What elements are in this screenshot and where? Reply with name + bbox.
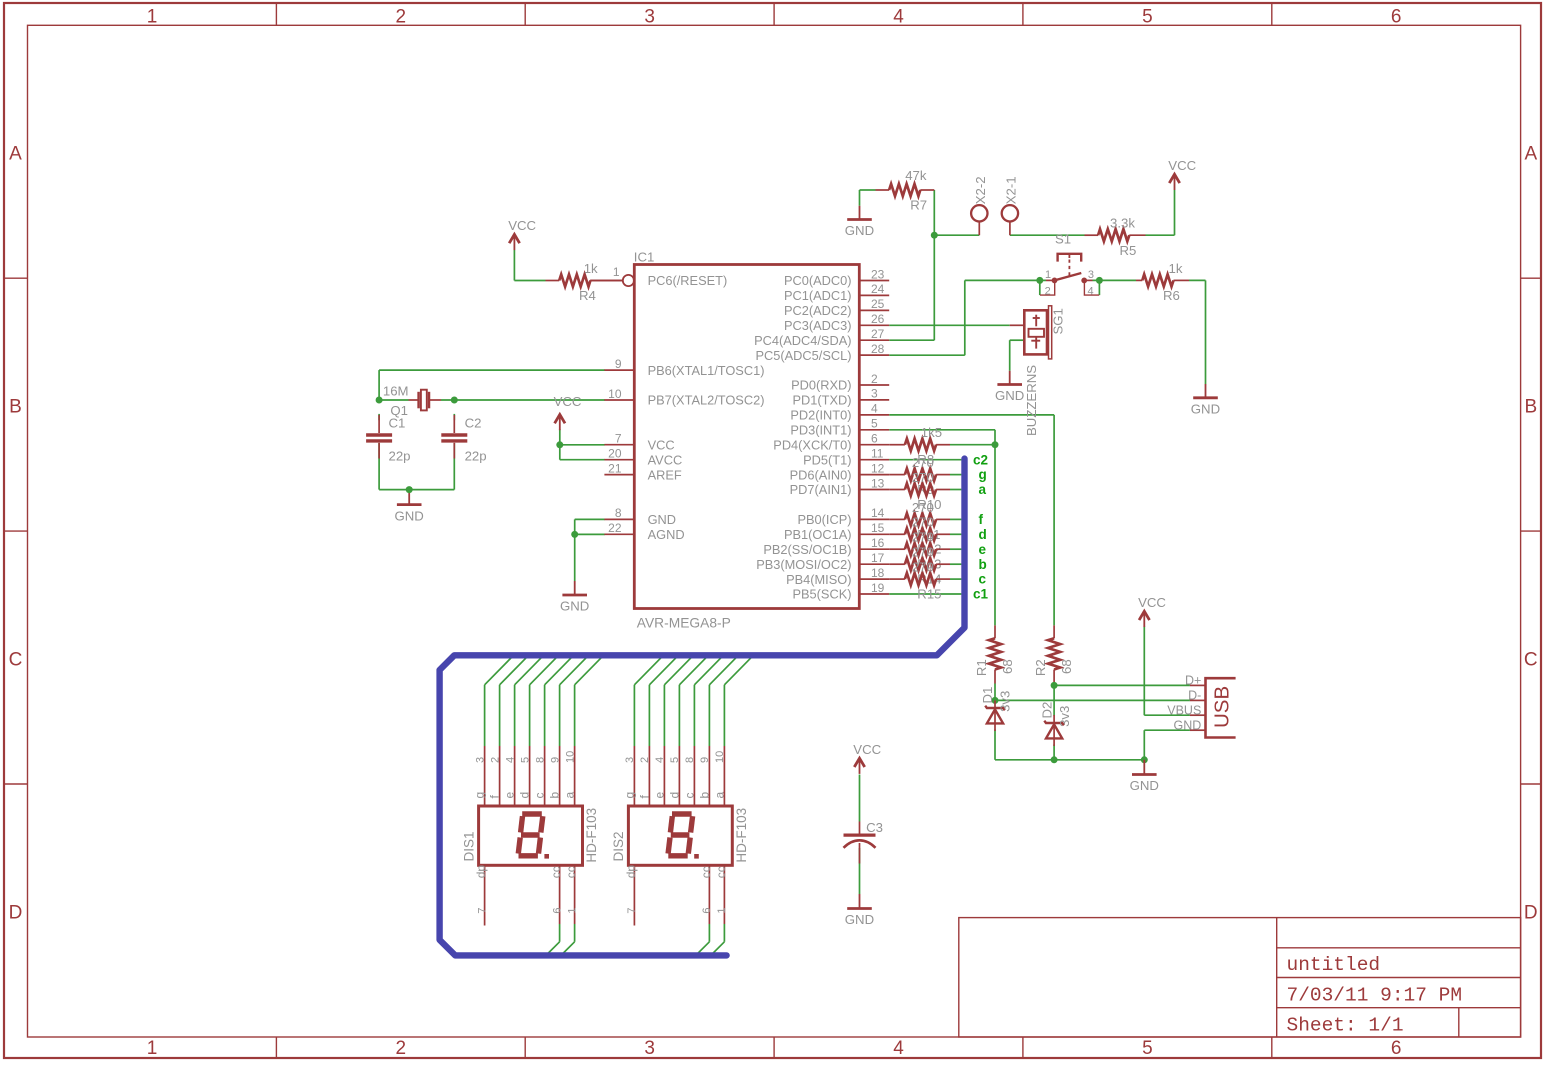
svg-text:5: 5: [669, 757, 681, 763]
svg-text:3v3: 3v3: [1057, 706, 1072, 727]
svg-text:13: 13: [871, 476, 885, 490]
svg-text:27: 27: [871, 327, 885, 341]
svg-text:S1: S1: [1055, 232, 1071, 247]
diode D2 zener 3v3: [1039, 702, 1072, 746]
resistor R12 270: [889, 515, 950, 557]
svg-text:b: b: [979, 557, 987, 572]
wire pin28 to S1 pin1: [889, 280, 1046, 355]
power VCC (R5): [1168, 158, 1196, 190]
svg-text:A: A: [1524, 144, 1537, 165]
svg-text:C2: C2: [465, 415, 482, 430]
bus segment display: [440, 459, 965, 956]
diode D1 zener 3v3: [980, 687, 1013, 731]
svg-text:16: 16: [871, 536, 885, 550]
svg-text:3v3: 3v3: [998, 691, 1013, 712]
svg-text:6: 6: [1391, 1038, 1402, 1059]
svg-text:4: 4: [504, 757, 516, 763]
svg-text:22p: 22p: [465, 448, 487, 463]
svg-text:7/03/11 9:17 PM: 7/03/11 9:17 PM: [1287, 985, 1463, 1007]
svg-text:VBUS: VBUS: [1167, 703, 1201, 717]
svg-text:8: 8: [615, 506, 622, 520]
svg-text:1: 1: [147, 1038, 158, 1059]
svg-text:2: 2: [639, 757, 651, 763]
node junction crystal left: [376, 397, 383, 404]
wire display segment pin: [664, 655, 693, 746]
wire resistor output pin18 to bus: [950, 578, 961, 580]
svg-text:47k: 47k: [905, 168, 927, 183]
pin 11 PD5(T1): [803, 447, 889, 468]
pin 18 PB4(MISO): [786, 566, 889, 587]
wire display segment pin: [709, 655, 738, 746]
svg-text:3: 3: [474, 757, 486, 763]
svg-text:a: a: [563, 792, 577, 799]
svg-text:2: 2: [396, 6, 407, 27]
svg-text:10: 10: [714, 751, 726, 763]
wire display segment pin: [634, 655, 663, 746]
resistor R1 68: [974, 625, 1015, 683]
wire pin11 to bus label c2: [889, 459, 961, 461]
svg-text:PB5(SCK): PB5(SCK): [792, 587, 851, 602]
svg-text:2: 2: [1045, 285, 1051, 297]
power VCC (pin7): [554, 394, 582, 430]
svg-text:PB1(OC1A): PB1(OC1A): [784, 527, 852, 542]
svg-text:3: 3: [644, 1038, 655, 1059]
svg-text:GND: GND: [845, 223, 874, 238]
svg-text:R5: R5: [1120, 243, 1137, 258]
svg-text:4: 4: [893, 1038, 904, 1059]
svg-text:PC2(ADC2): PC2(ADC2): [784, 303, 852, 318]
pin 7 VCC: [604, 432, 674, 453]
switch S1: [1040, 232, 1099, 298]
svg-text:c: c: [979, 572, 987, 587]
svg-text:VCC: VCC: [648, 437, 675, 452]
svg-text:b: b: [548, 792, 562, 799]
svg-text:4: 4: [1088, 285, 1094, 297]
wire display cc pin to bus: [546, 924, 560, 955]
svg-text:7: 7: [626, 907, 638, 913]
svg-text:D1: D1: [980, 687, 995, 704]
svg-text:270: 270: [912, 545, 934, 560]
pin 26 PC3(ADC3): [784, 312, 889, 333]
svg-text:PD3(INT1): PD3(INT1): [790, 423, 851, 438]
svg-text:22p: 22p: [389, 448, 411, 463]
svg-text:14: 14: [871, 506, 885, 520]
svg-text:C1: C1: [389, 415, 406, 430]
wire resistor output pin17 to bus: [950, 563, 961, 565]
svg-text:c: c: [533, 793, 547, 799]
svg-text:IC1: IC1: [634, 249, 655, 264]
svg-text:Sheet: 1/1: Sheet: 1/1: [1287, 1015, 1404, 1037]
svg-text:untitled: untitled: [1287, 954, 1381, 976]
svg-text:23: 23: [871, 267, 885, 281]
ground (SG1): [995, 371, 1024, 403]
svg-text:VCC: VCC: [1138, 595, 1166, 610]
svg-text:g: g: [979, 467, 987, 482]
capacitor C1 22p: [366, 415, 410, 463]
svg-text:2: 2: [489, 757, 501, 763]
wire display segment pin: [500, 655, 529, 746]
resistor R10 270: [889, 470, 950, 512]
pin 6 PD4(XCK/T0): [773, 432, 889, 453]
pin 28 PC5(ADC5/SCL): [755, 342, 889, 363]
wire resistor output pin16 to bus: [950, 548, 961, 550]
svg-text:GND: GND: [845, 912, 874, 927]
wire resistor output pin15 to bus: [950, 533, 961, 535]
svg-text:cc: cc: [549, 866, 563, 878]
wire display segment pin: [649, 655, 678, 746]
node junction S1 pin3: [1096, 277, 1103, 284]
pin 24 PC1(ADC1): [784, 282, 889, 303]
svg-text:PC5(ADC5/SCL): PC5(ADC5/SCL): [755, 348, 851, 363]
pin 22 AGND: [604, 521, 684, 542]
capacitor C3 polarized: [844, 820, 883, 864]
svg-text:DIS1: DIS1: [461, 831, 476, 861]
ground (pin8/22): [560, 581, 589, 614]
svg-text:2: 2: [396, 1038, 407, 1059]
wire S1 pin3 to R6: [1093, 280, 1137, 295]
wire VCC to pin7/pin20: [560, 429, 605, 460]
svg-text:cc: cc: [714, 866, 728, 878]
pin 25 PC2(ADC2): [784, 297, 889, 318]
svg-text:PC4(ADC4/SDA): PC4(ADC4/SDA): [754, 333, 851, 348]
resistor R14 270: [889, 545, 950, 587]
svg-text:1: 1: [716, 907, 728, 913]
resistor R13 270: [889, 530, 950, 572]
resistor R9 270: [889, 455, 950, 497]
svg-text:dp: dp: [624, 865, 638, 879]
svg-text:1: 1: [147, 6, 158, 27]
pin 20 AVCC: [604, 447, 682, 468]
wire display cc pin to bus: [711, 924, 725, 955]
svg-text:PB7(XTAL2/TOSC2): PB7(XTAL2/TOSC2): [648, 393, 765, 408]
svg-text:PD5(T1): PD5(T1): [803, 452, 851, 467]
svg-text:68: 68: [1059, 659, 1074, 674]
svg-text:1k: 1k: [1169, 261, 1183, 276]
svg-text:270: 270: [912, 470, 934, 485]
svg-text:A: A: [9, 144, 22, 165]
pin 15 PB1(OC1A): [784, 521, 889, 542]
svg-text:PC1(ADC1): PC1(ADC1): [784, 288, 852, 303]
svg-text:3.3k: 3.3k: [1110, 216, 1135, 231]
node junction S1 pin1: [1036, 277, 1043, 284]
op-amp ic IC1 AVR-MEGA8-P: [634, 249, 860, 630]
wire D+ net: [1054, 684, 1190, 716]
ground (USB): [1130, 760, 1159, 793]
svg-text:D-: D-: [1188, 689, 1201, 703]
svg-text:5: 5: [519, 757, 531, 763]
pin 23 PC0(ADC0): [784, 267, 889, 288]
svg-text:PB0(ICP): PB0(ICP): [797, 512, 851, 527]
svg-text:7: 7: [615, 432, 622, 446]
svg-text:AGND: AGND: [648, 527, 685, 542]
svg-text:GND: GND: [995, 388, 1024, 403]
svg-text:R1: R1: [974, 659, 989, 676]
svg-text:PD6(AIN0): PD6(AIN0): [790, 467, 852, 482]
wire R6 to GND: [1189, 280, 1206, 384]
wire display cc pin to bus: [696, 924, 710, 955]
pin 5 PD3(INT1): [790, 417, 889, 438]
resistor R2 68: [1033, 625, 1074, 683]
svg-text:24: 24: [871, 282, 885, 296]
svg-text:270: 270: [912, 500, 934, 515]
svg-text:f: f: [979, 512, 984, 527]
svg-text:GND: GND: [1174, 718, 1202, 732]
svg-text:VCC: VCC: [1168, 158, 1196, 173]
node junction D+ at D2: [1051, 682, 1058, 689]
svg-text:R6: R6: [1163, 288, 1180, 303]
svg-text:270: 270: [912, 530, 934, 545]
resistor R8 1k5: [889, 425, 950, 467]
power VCC (R4): [508, 218, 536, 250]
wire display segment pin: [575, 655, 604, 746]
svg-text:1k5: 1k5: [921, 425, 942, 440]
svg-text:17: 17: [871, 551, 885, 565]
svg-text:PB6(XTAL1/TOSC1): PB6(XTAL1/TOSC1): [648, 363, 765, 378]
svg-text:HD-F103: HD-F103: [734, 808, 749, 863]
svg-text:c2: c2: [973, 452, 988, 467]
svg-text:3: 3: [871, 387, 878, 401]
pin 2 PD0(RXD): [791, 372, 889, 393]
wire C1 C2 ground net: [379, 414, 454, 490]
svg-text:AVR-MEGA8-P: AVR-MEGA8-P: [637, 616, 731, 631]
wire display segment pin: [679, 655, 708, 746]
svg-text:D: D: [1524, 902, 1538, 923]
svg-text:PD0(RXD): PD0(RXD): [791, 378, 851, 393]
svg-text:6: 6: [551, 907, 563, 913]
pin 3 PD1(TXD): [792, 387, 889, 408]
svg-text:3: 3: [644, 6, 655, 27]
svg-text:GND: GND: [648, 512, 676, 527]
wire display segment pin: [545, 655, 574, 746]
svg-text:C: C: [1524, 649, 1538, 670]
svg-text:25: 25: [871, 297, 885, 311]
svg-text:R7: R7: [910, 198, 927, 213]
wire pin26 to SG1: [889, 324, 1010, 326]
pin 12 PD6(AIN0): [790, 461, 890, 482]
svg-text:3: 3: [1088, 269, 1094, 281]
pin 13 PD7(AIN1): [790, 476, 890, 497]
node junction pin5/R8/R1: [992, 441, 999, 448]
svg-text:18: 18: [871, 566, 885, 580]
pin 17 PB3(MOSI/OC2): [756, 551, 889, 572]
capacitor C2 22p: [441, 415, 486, 463]
power VCC (VBUS): [1138, 595, 1166, 627]
svg-text:28: 28: [871, 342, 885, 356]
pin 16 PB2(SS/OC1B): [763, 536, 889, 557]
pin 9 PB6(XTAL1/TOSC1): [604, 357, 764, 378]
svg-text:5: 5: [871, 417, 878, 431]
ground (C3): [845, 894, 874, 927]
svg-text:a: a: [713, 792, 727, 799]
svg-text:HD-F103: HD-F103: [584, 808, 599, 863]
wire display cc pin to bus: [561, 924, 575, 955]
svg-text:a: a: [979, 482, 987, 497]
node junction vcc pin7: [556, 441, 563, 448]
wire R5 to VCC: [1146, 190, 1175, 235]
svg-text:4: 4: [871, 402, 878, 416]
svg-text:10: 10: [564, 751, 576, 763]
wire R7 to X2-2 and pin27: [889, 190, 979, 340]
svg-text:PD1(TXD): PD1(TXD): [792, 393, 851, 408]
node junction D2 anode gnd: [1051, 756, 1058, 763]
pin 27 PC4(ADC4/SDA): [754, 327, 889, 348]
resistor R4 1k: [546, 261, 623, 303]
wire X2-1 to S1/R5: [1010, 234, 1085, 236]
svg-text:g: g: [473, 792, 487, 799]
svg-text:b: b: [698, 792, 712, 799]
resistor R15 270: [889, 560, 950, 586]
svg-text:6: 6: [1391, 6, 1402, 27]
connector USB: [1167, 674, 1235, 738]
svg-text:SG1: SG1: [1051, 308, 1066, 334]
pin 4 PD2(INT0): [790, 402, 889, 423]
resistor R5 3.3k: [1085, 216, 1146, 258]
power VCC (C3): [853, 742, 881, 774]
connector pad X2-1: [1002, 176, 1019, 235]
wire resistor output pin14 to bus: [950, 518, 961, 520]
svg-text:PB3(MOSI/OC2): PB3(MOSI/OC2): [756, 557, 851, 572]
svg-text:BUZZERNS: BUZZERNS: [1024, 365, 1039, 436]
svg-text:e: e: [653, 792, 667, 799]
node junction cap ground: [406, 486, 413, 493]
svg-text:6: 6: [871, 432, 878, 446]
svg-text:9: 9: [549, 757, 561, 763]
wire C3 net: [859, 775, 861, 895]
ground (R7): [845, 206, 874, 238]
node junction D- at D1: [992, 697, 999, 704]
resistor R6 1k: [1136, 261, 1189, 303]
svg-text:AVCC: AVCC: [648, 452, 683, 467]
svg-text:10: 10: [608, 387, 622, 401]
svg-text:D: D: [9, 902, 23, 923]
svg-text:D+: D+: [1185, 674, 1201, 688]
wire display segment pin: [515, 655, 544, 746]
svg-text:d: d: [518, 792, 532, 799]
svg-text:VCC: VCC: [853, 742, 881, 757]
svg-text:15: 15: [871, 521, 885, 535]
wire USB GND net: [995, 730, 1190, 760]
svg-text:c: c: [683, 793, 697, 799]
svg-text:B: B: [9, 396, 22, 417]
svg-text:PD7(AIN1): PD7(AIN1): [790, 482, 852, 497]
svg-text:GND: GND: [1191, 402, 1220, 417]
pin 19 PB5(SCK): [792, 581, 889, 602]
svg-text:4: 4: [654, 757, 666, 763]
svg-text:PB2(SS/OC1B): PB2(SS/OC1B): [763, 542, 851, 557]
svg-text:GND: GND: [560, 599, 589, 614]
svg-text:26: 26: [871, 312, 885, 326]
wire crystal net XTAL1 pin9: [379, 370, 605, 400]
svg-text:8: 8: [684, 757, 696, 763]
svg-text:3: 3: [624, 757, 636, 763]
svg-text:D2: D2: [1039, 702, 1054, 719]
svg-text:C3: C3: [866, 820, 883, 835]
wire display segment pin: [485, 655, 514, 746]
svg-text:68: 68: [1000, 659, 1015, 674]
wire D- net: [995, 684, 1190, 702]
svg-text:7: 7: [476, 907, 488, 913]
wire VCC to R4: [514, 250, 545, 281]
svg-text:PC0(ADC0): PC0(ADC0): [784, 273, 852, 288]
svg-text:1: 1: [566, 907, 578, 913]
svg-text:4: 4: [893, 6, 904, 27]
svg-text:5: 5: [1142, 6, 1153, 27]
svg-text:cc: cc: [699, 866, 713, 878]
svg-text:d: d: [979, 527, 987, 542]
wire display segment pin: [694, 655, 723, 746]
svg-text:GND: GND: [1130, 778, 1159, 793]
wire VCC to VBUS: [1144, 627, 1190, 716]
svg-text:22: 22: [608, 521, 622, 535]
wire display segment pin: [530, 655, 559, 746]
crystal Q1 16M: [383, 384, 441, 419]
svg-text:1k: 1k: [584, 261, 598, 276]
svg-text:PC6(/RESET): PC6(/RESET): [648, 273, 728, 288]
ground (crystal): [395, 490, 424, 524]
title block: [959, 918, 1521, 1037]
svg-text:e: e: [503, 792, 517, 799]
svg-text:PD4(XCK/T0): PD4(XCK/T0): [773, 437, 851, 452]
display DIS2 HD-F103: [611, 746, 749, 926]
pin 14 PB0(ICP): [797, 506, 889, 527]
svg-text:g: g: [623, 792, 637, 799]
wire crystal net XTAL2 pin10: [379, 399, 605, 401]
svg-text:1: 1: [1045, 269, 1051, 281]
svg-text:270: 270: [912, 560, 934, 575]
pin 10 PB7(XTAL2/TOSC2): [604, 387, 764, 408]
svg-text:X2-1: X2-1: [1003, 176, 1018, 204]
pin 8 GND: [604, 506, 676, 527]
pin 21 AREF: [604, 461, 682, 482]
wire R3 1k5 output: [950, 444, 995, 446]
svg-text:R4: R4: [579, 288, 596, 303]
svg-text:16M: 16M: [383, 384, 409, 399]
wire SG1 to GND: [1010, 340, 1025, 371]
svg-text:1: 1: [613, 265, 620, 279]
svg-text:21: 21: [608, 461, 622, 475]
svg-text:PB4(MISO): PB4(MISO): [786, 572, 851, 587]
svg-text:2: 2: [871, 372, 878, 386]
svg-text:VCC: VCC: [554, 394, 582, 409]
resistor R11 270: [889, 500, 950, 542]
svg-text:11: 11: [871, 447, 884, 461]
svg-text:19: 19: [871, 581, 885, 595]
svg-text:8: 8: [534, 757, 546, 763]
node junction pin22 gnd: [571, 531, 578, 538]
wire R7 to GND: [860, 190, 876, 206]
display DIS1 HD-F103: [461, 746, 599, 926]
svg-text:GND: GND: [395, 508, 424, 523]
svg-text:X2-2: X2-2: [973, 176, 988, 204]
svg-text:6: 6: [701, 907, 713, 913]
connector pad X2-2: [971, 176, 988, 235]
svg-text:20: 20: [608, 447, 622, 461]
node junction USB gnd: [1141, 756, 1148, 763]
wire resistor output pin12 to bus: [950, 474, 961, 476]
node junction R7/X2-2/pin27: [931, 232, 938, 239]
svg-text:PD2(INT0): PD2(INT0): [790, 408, 851, 423]
svg-text:e: e: [979, 542, 987, 557]
svg-text:USB: USB: [1211, 686, 1234, 728]
svg-text:270: 270: [912, 455, 934, 470]
svg-text:d: d: [668, 792, 682, 799]
node junction crystal right: [451, 397, 458, 404]
svg-text:R15: R15: [917, 587, 941, 602]
svg-text:VCC: VCC: [508, 218, 536, 233]
svg-text:9: 9: [615, 357, 622, 371]
buzzer SG1 BUZZERNS: [1010, 306, 1066, 436]
wire pin19 to bus label c1: [889, 593, 961, 595]
